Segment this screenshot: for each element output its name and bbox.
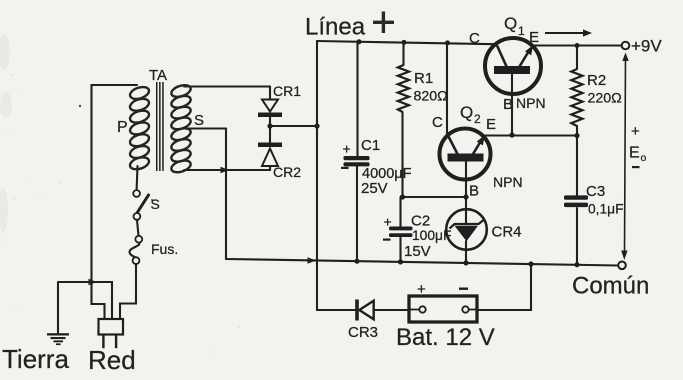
svg-text:15V: 15V bbox=[404, 243, 431, 260]
svg-text:B: B bbox=[503, 96, 513, 113]
svg-text:Tierra: Tierra bbox=[2, 344, 69, 374]
svg-text:C2: C2 bbox=[411, 213, 430, 230]
svg-text:2: 2 bbox=[474, 112, 481, 126]
svg-text:Q: Q bbox=[504, 14, 517, 33]
svg-text:R2: R2 bbox=[587, 72, 606, 89]
svg-text:S: S bbox=[151, 196, 160, 212]
svg-text:+: + bbox=[417, 281, 426, 298]
svg-text:S: S bbox=[194, 112, 204, 129]
svg-text:Fus.: Fus. bbox=[151, 241, 178, 257]
svg-text:CR2: CR2 bbox=[273, 164, 301, 180]
svg-text:E: E bbox=[529, 29, 539, 46]
svg-text:C: C bbox=[432, 114, 443, 131]
svg-text:+9V: +9V bbox=[631, 37, 662, 56]
svg-text:Q: Q bbox=[460, 103, 473, 122]
svg-text:CR4: CR4 bbox=[492, 224, 522, 241]
svg-text:CR1: CR1 bbox=[273, 83, 301, 99]
svg-text:NPN: NPN bbox=[516, 95, 546, 111]
svg-text:E: E bbox=[629, 145, 640, 162]
svg-text:220Ω: 220Ω bbox=[588, 91, 622, 107]
svg-text:C: C bbox=[469, 30, 480, 47]
svg-text:+: + bbox=[384, 214, 392, 230]
svg-text:Bat. 12 V: Bat. 12 V bbox=[396, 324, 495, 351]
svg-text:R1: R1 bbox=[414, 70, 433, 87]
svg-text:C1: C1 bbox=[361, 137, 380, 154]
svg-text:Red: Red bbox=[88, 345, 136, 375]
svg-text:E: E bbox=[486, 116, 496, 133]
svg-text:B: B bbox=[469, 183, 479, 200]
svg-text:+: + bbox=[343, 141, 351, 157]
svg-text:P: P bbox=[117, 119, 128, 136]
svg-text:C3: C3 bbox=[586, 183, 605, 200]
svg-text:1: 1 bbox=[518, 24, 525, 38]
svg-text:25V: 25V bbox=[361, 180, 388, 197]
svg-text:o: o bbox=[641, 152, 647, 164]
svg-text:TA: TA bbox=[149, 67, 167, 84]
svg-text:820Ω: 820Ω bbox=[414, 89, 448, 105]
svg-text:+: + bbox=[631, 123, 640, 140]
svg-text:NPN: NPN bbox=[493, 174, 523, 190]
svg-text:CR3: CR3 bbox=[348, 324, 378, 341]
svg-text:Línea: Línea bbox=[305, 14, 366, 41]
svg-text:0,1μF: 0,1μF bbox=[588, 202, 624, 217]
svg-text:100μF: 100μF bbox=[412, 228, 451, 243]
svg-text:Común: Común bbox=[572, 273, 649, 300]
